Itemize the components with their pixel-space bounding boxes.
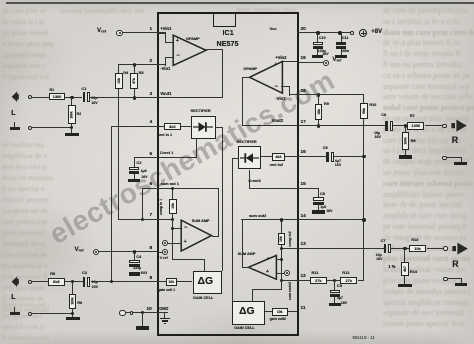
capacitor C5 top lead	[334, 280, 335, 289]
wire C3 to pin 9	[91, 281, 158, 282]
opamp2 label OPAMP	[243, 67, 257, 71]
value C3 16V	[92, 286, 98, 290]
value C9 16V	[335, 164, 341, 168]
junction R1-C1 / R2	[70, 96, 73, 99]
capacitor C8 top lead	[318, 188, 319, 198]
jack terminal R output	[442, 124, 446, 128]
resistor R8 bottom lead	[405, 150, 406, 156]
capacitor C4 top lead	[134, 252, 135, 260]
wire sum bus ch1 vertical	[172, 220, 173, 260]
resistor R13 10k	[409, 245, 426, 253]
wire pin10 external	[126, 312, 158, 313]
pin 4 number	[150, 120, 153, 125]
label R2	[77, 113, 82, 117]
jack terminal L output ground	[28, 126, 32, 130]
chassis ground top-left	[14, 122, 15, 128]
wire 10k2 bottom lead	[281, 245, 282, 249]
resistor R2 100k	[68, 105, 76, 124]
ground symbol inside IC (3 bars)	[160, 318, 169, 320]
wire C1 to pin 3	[90, 97, 157, 98]
ground bar under R8	[399, 155, 413, 158]
wire pin15 external	[297, 188, 319, 189]
wire sum bus ch1 corner to gain cell	[172, 259, 205, 260]
wire pin6 to pin7 jumper	[142, 188, 143, 221]
junction bus / sum out2 line	[362, 218, 365, 221]
wire pin2 external to R4/R3	[118, 64, 157, 65]
wire pin16 to C9	[297, 156, 326, 157]
junction C6-R7 / R8	[404, 124, 407, 127]
ground bar R output jack	[454, 162, 467, 165]
wire rectifier2 bottom down	[249, 170, 250, 190]
op-amp U1b channel2 OPAMP triangle	[248, 60, 284, 95]
wire into opamp1 + input	[165, 42, 174, 43]
value C9 4u7	[335, 160, 341, 164]
ground bar under C10	[312, 55, 323, 58]
gain cell1 label GAIN CELL	[193, 296, 213, 300]
resistor R11 27k	[310, 277, 327, 285]
pin 17 number	[301, 120, 306, 125]
junction R9 / Vout2 line	[317, 124, 320, 127]
wire rectifier2 to internal 4k3 ch2	[261, 156, 272, 157]
value C4 6V3	[141, 272, 147, 276]
pin 8 number	[150, 246, 153, 251]
label R4	[123, 71, 128, 75]
wire to sum amp1 - input	[173, 228, 182, 229]
wire opamp1 output	[206, 49, 223, 50]
wire pin18 internal stub	[289, 94, 297, 95]
label R3	[139, 71, 144, 75]
wire Vout2 to pin 17	[242, 125, 296, 126]
junction sum amp1 - input	[171, 227, 174, 230]
pin 20 number	[301, 27, 306, 32]
pin 2 name -Vin1	[160, 67, 170, 71]
wire Vref to pin 1	[123, 32, 158, 33]
label C7	[381, 239, 386, 243]
value C10 100u	[318, 50, 326, 54]
resistor R4 10k	[115, 73, 123, 89]
jack terminal R input	[443, 246, 447, 250]
ground bar R input jack	[455, 283, 468, 286]
pin 7 number	[150, 213, 153, 218]
junction pin2 / R3	[133, 63, 136, 66]
capacitor C10 plate2	[313, 46, 323, 49]
wire opamp2 output down	[242, 77, 243, 127]
wire pin14 internal line	[241, 219, 297, 220]
resistor internal 4k3 rect in 1	[164, 123, 181, 131]
wire rectifier2 control down to gain cell 2	[232, 158, 233, 302]
label R10	[369, 103, 376, 107]
junction input line / pin4 link	[110, 280, 113, 283]
capacitor C7 plate1	[384, 244, 387, 254]
wire R7 to jack R out	[425, 125, 442, 126]
wire pin1 to opamp1 +	[158, 32, 165, 33]
capacitor C11 bottom lead	[341, 49, 342, 55]
jack terminal L input	[28, 280, 32, 284]
wire pin13 internal stub	[281, 248, 297, 249]
label L top input	[11, 110, 15, 117]
wire opamp2 - elbow v	[289, 86, 290, 95]
jack terminal L output	[28, 95, 32, 99]
wire pin8 internal stub	[158, 252, 163, 253]
power terminal +8V circled plus	[359, 29, 367, 37]
opamp2 + mark	[274, 63, 277, 69]
Vref terminal symbol pin19	[323, 60, 329, 66]
label C10	[319, 37, 326, 41]
label C2	[136, 161, 141, 165]
capacitor C6 plate1	[385, 121, 388, 131]
label +8V	[371, 29, 382, 35]
value C4 220u	[133, 267, 141, 271]
pin 6 number	[150, 182, 153, 187]
ground bar under R2	[65, 133, 79, 136]
junction jack ground / R2 ground	[70, 126, 73, 129]
rectifier block channel1 box	[191, 116, 215, 140]
gain cell2 label GAIN CELL	[234, 326, 254, 330]
ground stub R in	[461, 278, 462, 283]
ground symbol stem inside IC	[164, 313, 165, 318]
capacitor C8 bottom lead	[318, 205, 319, 211]
junction Vcc / C11	[338, 31, 341, 34]
wire pin4 down to gain-cell input line	[111, 126, 112, 283]
wire sum amp2 output left	[242, 267, 249, 268]
resistor R10 bottom lead and feedback bus	[363, 119, 364, 281]
resistor R9 top lead	[318, 95, 319, 104]
internal label sum node2 (rotated)	[289, 281, 293, 299]
pin 15 name Crect2	[248, 179, 260, 183]
op-amp sum amp 2 triangle	[247, 254, 278, 281]
wire lower jack2 to ground	[32, 313, 72, 314]
wire Vout1 to pin 3	[158, 97, 223, 98]
chassis ground bottom-left	[14, 307, 15, 313]
IC1 part number NE575	[217, 40, 239, 48]
ground bar under C5	[329, 303, 341, 306]
resistor R6 100k	[69, 294, 77, 309]
wire pin18 external	[297, 94, 365, 95]
capacitor C1 plate2	[87, 92, 90, 102]
wire pin19 to opamp2 +	[281, 61, 297, 62]
pin 17 name Vout2	[272, 119, 283, 123]
wire pin6 internal line	[158, 188, 220, 189]
jack terminal +8V	[350, 31, 354, 35]
value C6 10u	[374, 132, 380, 136]
label C6	[381, 113, 386, 117]
junction sum amp2 - input	[280, 258, 283, 261]
resistor internal 10k comp in2 feedback	[278, 233, 286, 245]
wire R13 to jack R in	[427, 248, 443, 249]
diode D inside rectifier1	[193, 121, 213, 133]
resistor R6 top lead	[72, 282, 73, 294]
wire pin6 external	[142, 188, 157, 189]
resistor internal 10k gain cell 1	[166, 278, 177, 286]
ground bar under C11	[335, 55, 346, 58]
capacitor C11 top lead	[341, 33, 342, 42]
wire C6 to R7	[393, 125, 408, 126]
wire jack to R5	[32, 281, 48, 282]
junction R5-C3 / R6	[71, 280, 74, 283]
ground bar under R6	[66, 317, 80, 320]
wire 10k2 top lead	[281, 220, 282, 233]
Vref terminal symbol pin1	[116, 30, 122, 36]
pin 5 name Crect 1	[160, 151, 174, 155]
wire Vref line to pin 8	[99, 251, 157, 252]
label R7	[410, 114, 415, 118]
wire into opamp1 - input	[165, 57, 174, 58]
resistor internal 10k comp in 1 feedback	[169, 199, 177, 214]
sum amp1 label SUM AMP	[192, 219, 210, 223]
junction pin18 / R9	[317, 93, 320, 96]
Vref terminal at pin 8	[162, 249, 168, 255]
label C11	[342, 37, 349, 41]
wire gain cell2 to 10k pin11	[265, 311, 272, 312]
wire rectifier1 output down to gain cell 1	[222, 127, 223, 272]
wire R5 to C3	[65, 281, 82, 282]
label R9	[324, 102, 329, 106]
pin 11 number	[301, 306, 306, 311]
resistor internal 10k gain cell 2	[272, 308, 288, 316]
pin 15 number	[301, 182, 306, 187]
gain cell channel1 box	[193, 271, 223, 294]
label V ref pin8	[160, 257, 168, 261]
wire 4k3 ch2 to pin16	[285, 156, 297, 157]
resistor R12 27k	[340, 277, 357, 285]
op-amp compander IC1 NE575 body outline	[157, 12, 299, 337]
value C5 16V	[341, 302, 347, 306]
value C7 16V	[376, 258, 382, 262]
ground stub R out	[461, 157, 462, 162]
internal label rect in 1	[158, 133, 173, 137]
label Vref at pin 8	[75, 247, 84, 254]
scan page edge line	[6, 2, 474, 4]
pin 3 name Vout1	[160, 92, 171, 96]
capacitor C8 plate1	[313, 197, 324, 201]
IC1 designator label	[223, 29, 234, 37]
gain cell2 delta-G symbol	[239, 306, 255, 317]
pin 19 name +Vin2	[275, 56, 286, 60]
wire pin14 external to bus	[297, 219, 365, 220]
label Vcc inside pin20	[270, 27, 277, 31]
capacitor C7 plate2	[388, 244, 391, 254]
audio connector arrow L output	[11, 91, 20, 102]
capacitor C11 plate1	[336, 42, 346, 45]
value C6 16V	[375, 136, 381, 140]
wire pin2 to opamp1 -	[158, 64, 165, 65]
pin 14 number	[301, 214, 306, 219]
wire sum bus ch2 vertical	[281, 249, 282, 282]
sum amp1 + mark	[184, 240, 187, 246]
wire sum amp1 output up to pin6 line	[218, 188, 219, 236]
wire rectifier1 bottom to Crect1	[196, 139, 197, 158]
resistor R3 47k	[130, 73, 138, 89]
ground lead pin10	[142, 313, 143, 327]
label C4	[136, 255, 141, 259]
resistor R8 100k	[402, 132, 410, 150]
label R input	[452, 260, 458, 269]
jack terminal R input ground	[443, 277, 447, 281]
pin 19 number	[301, 56, 306, 61]
gain cell channel2 box	[232, 301, 265, 324]
wire gain cell2 output drop	[252, 289, 253, 301]
resistor R2 bottom lead	[71, 124, 72, 133]
junction C7-R13 / R14	[403, 247, 406, 250]
tolerance 1% label	[388, 265, 395, 269]
value C8 16V	[326, 210, 332, 214]
value C10 16V	[322, 53, 328, 57]
label R output	[452, 136, 458, 145]
value C5 4u7	[337, 297, 343, 301]
pin 14 name sum out2	[249, 214, 266, 218]
wire pin5 external	[134, 157, 157, 158]
wire to sum amp2 - input	[276, 259, 281, 260]
value C8 1u0	[320, 206, 326, 210]
capacitor C6 plate2	[390, 121, 393, 131]
resistor R7 1300	[407, 122, 424, 130]
resistor R8 top lead	[405, 126, 406, 132]
wire R11 to R12	[327, 280, 340, 281]
wire pin7 internal stub	[158, 219, 174, 220]
pin 13 number	[301, 242, 306, 247]
capacitor C9 plate2	[331, 152, 334, 162]
sum amp2 label SUM AMP	[238, 252, 256, 256]
resistor R5 6k8	[48, 278, 65, 286]
wire pin12 to R11	[297, 280, 310, 281]
capacitor C10 plate1	[313, 42, 323, 45]
wire pin20 Vcc line	[297, 32, 352, 33]
jack terminal L input ground	[28, 312, 32, 316]
opamp1 label OPAMP	[186, 37, 200, 41]
value C1 10u	[91, 97, 97, 101]
wire pin4 to internal 4k3	[158, 126, 164, 127]
capacitor C10 bottom lead	[317, 49, 318, 55]
junction Vcc / C10	[316, 31, 319, 34]
wire gain cell2 output corner	[252, 289, 282, 290]
wire pin12 internal stub	[281, 280, 297, 281]
pin 18 number	[301, 89, 306, 94]
capacitor C2 plate2	[129, 171, 140, 174]
wire C7 to R13	[391, 248, 409, 249]
junction Vref line / C4	[133, 250, 136, 253]
internal label comp in 1 (rotated)	[160, 198, 164, 214]
label R6	[77, 301, 82, 305]
resistor R14 4k7	[401, 262, 409, 277]
wire pin7 external	[118, 219, 157, 220]
IC1 package notch marker	[213, 13, 237, 27]
label C1	[81, 87, 86, 91]
wire Crect1 to pin 5	[158, 157, 198, 158]
capacitor C8 plate2	[313, 202, 324, 205]
pin 16 number	[301, 150, 306, 155]
gain cell1 delta-G symbol	[198, 276, 214, 287]
junction pin13 / sum bus2	[280, 247, 283, 250]
wire pin19 to Vref	[297, 62, 323, 63]
value C2 16V	[141, 176, 147, 180]
internal label gain cell 1	[158, 289, 175, 293]
capacitor C5 plate2	[330, 294, 340, 297]
label R13	[411, 238, 418, 242]
resistor R6 bottom lead	[72, 309, 73, 317]
capacitor C11 plate2	[336, 46, 346, 49]
rectifier1 label RECTIFIER	[191, 109, 211, 113]
wire pin4 external	[111, 126, 157, 127]
pin 6 name sum out 1	[161, 182, 179, 186]
wire rectifier1 output right	[216, 127, 223, 128]
value C11 100n	[341, 50, 349, 54]
opamp1 + input mark	[176, 39, 179, 45]
label C8	[320, 192, 325, 196]
resistor R10 56k	[360, 103, 368, 120]
value C1 16V	[91, 102, 97, 106]
wire R4 to pin 7 long vertical	[118, 89, 119, 220]
connector tip symbol pin10	[130, 311, 134, 315]
resistor R3 bottom lead	[134, 89, 135, 99]
wire R12 to bus	[358, 280, 365, 281]
wire 10k1 bottom lead	[172, 214, 173, 221]
label R8	[411, 139, 416, 143]
ground bar under C4	[129, 272, 140, 275]
wire sum amp2 output up to pin14	[242, 219, 243, 268]
figure number 90411S-11	[353, 336, 375, 340]
capacitor C2 plate1	[129, 167, 140, 170]
internal label gain cell2	[270, 318, 286, 322]
wire 10k to pin 11	[288, 311, 297, 312]
resistor R14 top lead	[404, 249, 405, 262]
capacitor C3 plate2	[87, 277, 90, 287]
label R11	[312, 271, 319, 275]
wire 10k to gain cell1 box	[177, 281, 193, 282]
op-amp sum amp 1 triangle	[180, 219, 213, 253]
capacitor C9 plate1	[326, 152, 329, 162]
junction pin12 / sum bus2	[280, 279, 283, 282]
wire jack to R1	[32, 97, 49, 98]
junction pin6 line / 10k feedback	[171, 187, 174, 190]
wire sum amp1 output	[212, 236, 219, 237]
label R5	[50, 272, 55, 276]
rectifier2 label RECTIFIER	[237, 140, 257, 144]
junction jumper / pin7 line	[141, 218, 144, 221]
sum amp2 - mark	[267, 256, 271, 262]
junction jack2 ground / R6 ground	[71, 312, 74, 315]
label Vref at pin 1	[97, 28, 106, 35]
value C3 10u	[92, 281, 98, 285]
pin 5 number	[150, 152, 153, 157]
jack terminal R output ground	[442, 156, 446, 160]
wire pin5 corner down	[134, 157, 135, 166]
label C9	[323, 146, 328, 150]
audio connector arrow L input	[11, 276, 20, 287]
wire lower jack to ground	[32, 127, 71, 128]
internal label comp in2 (rotated)	[289, 232, 293, 247]
wire 10k1 top lead	[172, 188, 173, 199]
capacitor C2 lead	[134, 174, 135, 179]
resistor R2 top lead	[71, 97, 72, 105]
ground bar pin10	[136, 326, 150, 329]
junction R3 / Vout1 line	[133, 96, 136, 99]
wire sum amp2 + input	[276, 273, 284, 274]
pin 3 number	[150, 92, 153, 97]
resistor R10 top lead	[363, 95, 364, 103]
label C3	[82, 271, 87, 275]
resistor R1 1300	[49, 93, 65, 100]
label C5	[337, 284, 342, 288]
resistor R14 bottom lead	[404, 276, 405, 284]
junction pin10 / ground	[141, 311, 144, 314]
wire Crect2 to pin 15	[249, 188, 297, 189]
wire 4k3 to rectifier1	[181, 126, 191, 127]
capacitor C5 plate1	[330, 290, 340, 293]
label R12	[342, 271, 349, 275]
wire pin1 elbow	[165, 32, 166, 42]
label R1	[50, 89, 55, 93]
pin 1 name +Vin1	[160, 27, 171, 31]
